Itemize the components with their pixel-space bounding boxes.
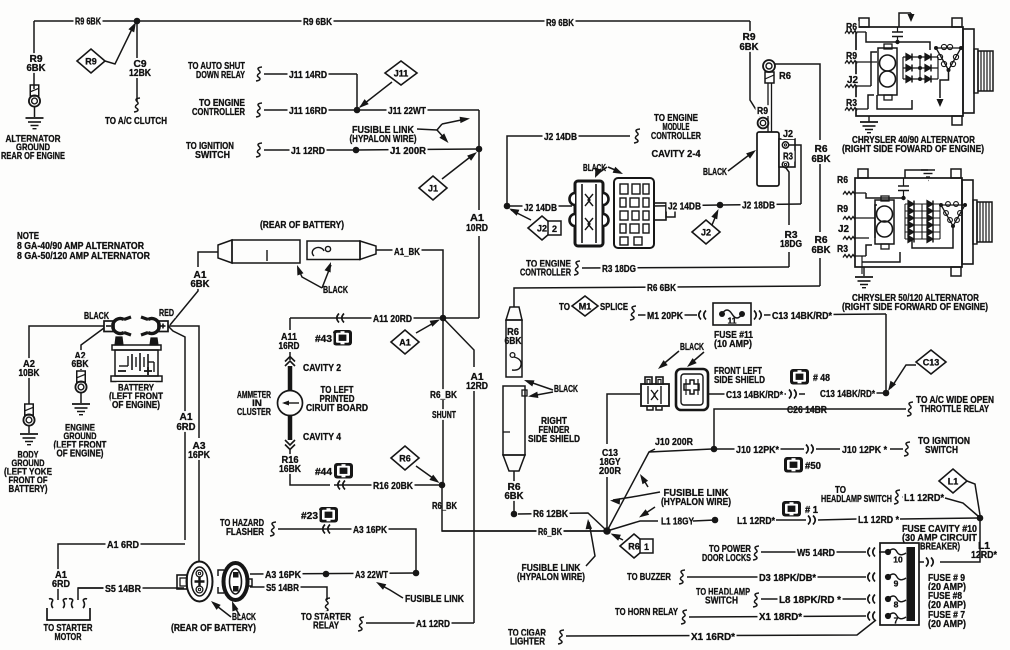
arrowhead at J2 18DB junction bbox=[711, 209, 718, 219]
svg-text:CONTROLLER: CONTROLLER bbox=[520, 268, 571, 279]
wire A1 10RD lower bbox=[478, 236, 480, 318]
leader fusible mid to L1 bbox=[643, 507, 655, 515]
arrowhead fusible link upper bbox=[460, 117, 470, 123]
svg-text:S5 14BR: S5 14BR bbox=[266, 583, 299, 594]
label AMMETER IN CLUSTER bbox=[236, 389, 273, 400]
arrowhead fusible link bottom bbox=[376, 582, 386, 590]
label TO LEFT PRINTED CIRUIT BOARD bbox=[319, 384, 355, 395]
svg-text:J2 14DB: J2 14DB bbox=[524, 203, 557, 214]
label A11 20RD bbox=[372, 313, 414, 324]
label ALTERNATOR GROUND REAR OF ENGINE bbox=[4, 133, 62, 144]
svg-text:CONTROLLER: CONTROLLER bbox=[192, 107, 245, 118]
connector chevrons hazard bbox=[328, 525, 330, 534]
label TO HEADLAMP SWITCH lower bbox=[695, 586, 752, 597]
label TO HEADLAMP SWITCH right bbox=[834, 484, 848, 495]
wire R6 6BK vertical lower bbox=[819, 258, 821, 286]
fusible link capsule right bbox=[307, 241, 360, 260]
alternator 40/90 diode bridge bbox=[903, 56, 938, 58]
label R9 6BK vertical bbox=[28, 53, 44, 64]
icon bulkhead #43 bbox=[333, 330, 352, 346]
wire J11 diamond leader bbox=[360, 82, 392, 107]
label BATTERY (LEFT FRONT OF ENGINE) bbox=[117, 382, 156, 393]
label J11 22WT bbox=[387, 105, 428, 116]
connector A1 diamond bbox=[391, 330, 419, 354]
label J1 200R bbox=[389, 145, 428, 156]
connector R6>1 diamond bbox=[620, 534, 648, 558]
label A3 22WT bbox=[354, 569, 390, 580]
relay terminal J2 bbox=[782, 142, 788, 148]
arrowhead at J2 14DB junction bbox=[509, 209, 519, 216]
wire body ground stem bbox=[28, 426, 30, 433]
node J2 14DB junction bbox=[504, 203, 511, 210]
front shield connector 2 bbox=[676, 369, 708, 410]
wire R6 6BK from eyelet bbox=[775, 64, 820, 140]
ammeter thick lead lower bbox=[288, 416, 293, 440]
label CAVITY 4 bbox=[302, 431, 343, 442]
node J10 junction bbox=[711, 446, 718, 453]
wire C13 14BK/RD bbox=[764, 314, 886, 315]
svg-text:(HYPALON WIRE): (HYPALON WIRE) bbox=[517, 572, 585, 583]
wire A1 10RD upper bbox=[478, 149, 480, 210]
svg-text:X1 18RD*: X1 18RD* bbox=[759, 612, 802, 623]
label J2 18DB bbox=[741, 200, 777, 211]
wire A11 20RD bbox=[290, 317, 443, 319]
wire fender capsule to R6 junction bbox=[513, 471, 515, 511]
leader fusible mid to J10 bbox=[642, 477, 648, 487]
wire ground stem bbox=[34, 107, 36, 117]
wire R6 diamond leader bbox=[416, 466, 437, 481]
svg-text:6BK: 6BK bbox=[505, 491, 524, 502]
svg-text:R6: R6 bbox=[399, 453, 411, 463]
wire C13 diamond leader bbox=[891, 365, 916, 388]
ground alternator bbox=[26, 117, 44, 119]
svg-text:# 1: # 1 bbox=[805, 505, 819, 516]
wire J11 22WT drop bbox=[478, 110, 480, 149]
label #1 bbox=[804, 504, 820, 515]
wire battery negative to engine ground bbox=[81, 328, 104, 370]
connector chevrons D3 bbox=[873, 573, 875, 582]
svg-text:SHUNT: SHUNT bbox=[432, 410, 456, 421]
label A2 6BK bbox=[73, 350, 87, 361]
icon bulkhead #44 bbox=[334, 463, 353, 479]
fuse 10 terminal bbox=[885, 549, 891, 555]
leader black mid connector 1 bbox=[596, 167, 607, 176]
svg-text:#23: #23 bbox=[301, 511, 319, 522]
label R6 6BK vertical upper bbox=[813, 143, 829, 154]
label A2 10BK bbox=[22, 358, 37, 369]
label NOTE block bbox=[16, 230, 41, 241]
wire S5 14BR left bbox=[78, 588, 104, 600]
wire J10 12PK 2 bbox=[816, 448, 840, 450]
label W5 14RD bbox=[796, 547, 837, 558]
svg-text:CONTROLLER: CONTROLLER bbox=[651, 131, 701, 142]
label (REAR OF BATTERY) bottom bbox=[170, 622, 258, 633]
svg-text:TO HORN RELAY: TO HORN RELAY bbox=[615, 607, 678, 618]
alternator 40/90 internal wiring bbox=[866, 32, 898, 42]
connector J2>2 diamond bbox=[528, 216, 556, 240]
label #44 bbox=[314, 466, 334, 477]
svg-text:6BK: 6BK bbox=[505, 336, 522, 347]
label CHRYSLER 50/120 ALTERNATOR bbox=[851, 292, 981, 303]
svg-text:C26 14BR: C26 14BR bbox=[787, 405, 827, 416]
wire R9 6BK drop right bbox=[750, 21, 760, 116]
svg-text:J2: J2 bbox=[783, 129, 793, 140]
label FRONT LEFT SIDE SHIELD bbox=[713, 365, 764, 376]
label #50 bbox=[804, 460, 823, 471]
label L1 12RD 1 bbox=[736, 515, 777, 526]
wire A1 6BK lower bbox=[170, 285, 198, 325]
svg-text:CAVITY 4: CAVITY 4 bbox=[303, 432, 341, 443]
wire C13 row2 mid bbox=[799, 393, 805, 395]
wire L1 12RD 3 bbox=[818, 519, 857, 520]
svg-text:R6_BK: R6_BK bbox=[538, 527, 562, 538]
label M1 20PK bbox=[646, 310, 685, 321]
fuse 7 element bbox=[888, 613, 906, 619]
battery post negative bbox=[115, 337, 123, 345]
svg-text:6BK: 6BK bbox=[191, 279, 210, 290]
connector chevrons L1 cavity bbox=[926, 558, 928, 567]
svg-text:J1 200R: J1 200R bbox=[390, 146, 426, 157]
wire R9 6BK top bus bbox=[34, 20, 750, 22]
svg-text:R6: R6 bbox=[779, 71, 792, 82]
leader fusible link upper bbox=[417, 124, 442, 130]
label BLACK rear connectors bbox=[231, 611, 258, 622]
label BLACK battery clamp bbox=[83, 310, 111, 321]
alternator 50/120 terminal J2 bbox=[837, 223, 851, 234]
ammeter circle bbox=[278, 391, 303, 416]
node A3 22WT end bbox=[413, 570, 420, 577]
alternator 40/90 terminal R6 bbox=[845, 21, 859, 32]
label A11 16RD bbox=[280, 331, 299, 342]
svg-text:BLACK: BLACK bbox=[232, 612, 256, 623]
svg-text:#50: #50 bbox=[805, 461, 822, 472]
svg-text:CAVITY 2: CAVITY 2 bbox=[303, 363, 341, 374]
connector M1 diamond bbox=[572, 296, 598, 316]
label TO A/C WIDE OPEN THROTTLE RELAY bbox=[915, 394, 996, 405]
svg-text:J10 12PK*: J10 12PK* bbox=[736, 445, 779, 456]
label FUSE # 7 (20 AMP) bbox=[927, 609, 967, 620]
svg-text:(HYPALON WIRE): (HYPALON WIRE) bbox=[661, 497, 731, 508]
ring terminal R9 bbox=[758, 118, 769, 129]
wire J1 12RD bbox=[264, 149, 356, 151]
label FUSIBLE LINK (HYPALON WIRE) lower bbox=[520, 562, 582, 573]
leader black fender upper bbox=[527, 381, 553, 390]
wire J10 12PK 3 bbox=[890, 448, 903, 450]
alternator 40/90 terminal R9 bbox=[845, 50, 859, 61]
label TO HORN RELAY bbox=[614, 606, 680, 617]
leader black shield conn1 bbox=[661, 351, 679, 366]
svg-text:18DG: 18DG bbox=[780, 239, 802, 250]
alternator 40/90 case ground bbox=[868, 116, 870, 122]
rear connector B oval bbox=[224, 563, 248, 600]
node L1 junction bbox=[977, 515, 984, 522]
wire L1 label leader bbox=[945, 498, 978, 516]
fusible link capsule left bbox=[218, 240, 232, 263]
svg-text:BLACK: BLACK bbox=[680, 342, 704, 353]
icon bulkhead #48 bbox=[790, 369, 809, 385]
svg-text:THROTTLE RELAY: THROTTLE RELAY bbox=[920, 404, 989, 415]
svg-text:R9 6BK: R9 6BK bbox=[546, 18, 574, 29]
label TO ENGINE MODULE CONTROLLER bbox=[653, 112, 700, 123]
alternator 50/120 brush circles bbox=[877, 206, 893, 222]
wire J2 18DB bbox=[720, 204, 801, 205]
svg-text:C13 14BK/RD*: C13 14BK/RD* bbox=[726, 390, 783, 401]
svg-text:J10 200R: J10 200R bbox=[655, 437, 693, 448]
svg-text:10RD: 10RD bbox=[466, 223, 488, 234]
label R3 18DG vertical bbox=[783, 229, 799, 240]
wire J2 14DB right bbox=[654, 205, 720, 206]
label A1 12RD bottom bbox=[415, 618, 452, 629]
wire J10 200R diagonal bbox=[607, 449, 655, 531]
label TO IGNITION SWITCH right bbox=[917, 435, 972, 446]
sleeve R6 bbox=[765, 72, 774, 83]
wire C9 12BK lower bbox=[136, 77, 138, 101]
wire-end squiggle J10 bbox=[904, 442, 910, 456]
wire A1 12RD diagonal bbox=[443, 318, 474, 367]
svg-text:TO BUZZER: TO BUZZER bbox=[627, 572, 671, 583]
wire C9 12BK upper bbox=[136, 21, 138, 58]
svg-text:7: 7 bbox=[894, 616, 899, 626]
arrowhead fusible lower bbox=[586, 519, 593, 529]
fusible link capsule lower (fender) bbox=[503, 386, 525, 455]
label #23 bbox=[300, 510, 320, 521]
starter bracket bbox=[47, 608, 90, 620]
label R9 6BK right vertical bbox=[741, 31, 757, 42]
wire L1 12RD headlamp bbox=[902, 496, 943, 498]
wire L8 18PK/RD bbox=[761, 598, 866, 600]
wire-end squiggle starter relay S5 bbox=[324, 598, 330, 612]
arrowhead at big junction bbox=[611, 534, 621, 541]
label BLACK rear-of-battery bbox=[322, 284, 350, 295]
label C13 14BK/RD top bbox=[771, 310, 834, 321]
alternator 40/90 terminal J2 bbox=[846, 74, 860, 85]
node J11 junction bbox=[354, 107, 361, 114]
svg-text:SPLICE: SPLICE bbox=[600, 302, 628, 313]
wire S5 14BR right bbox=[250, 587, 327, 600]
svg-text:CIRUIT BOARD: CIRUIT BOARD bbox=[306, 403, 368, 414]
connector chevrons X1 bbox=[873, 612, 875, 621]
label TO M1 SPLICE bbox=[558, 301, 572, 312]
svg-text:(RIGHT SIDE FORWARD OF ENGINE): (RIGHT SIDE FORWARD OF ENGINE) bbox=[842, 302, 988, 313]
wire L1 12RD 2 bbox=[776, 519, 806, 521]
battery body bbox=[112, 345, 161, 350]
wire-end squiggle M1 bbox=[630, 306, 636, 320]
label L1 18GY bbox=[660, 516, 696, 527]
wire C13 row2 from connector bbox=[708, 393, 786, 395]
connector R6 diamond mid bbox=[391, 446, 419, 470]
connector chevrons J10 bbox=[806, 445, 808, 454]
svg-text:RED: RED bbox=[159, 308, 174, 319]
label RIGHT FENDER SIDE SHIELD bbox=[540, 415, 569, 426]
label R6 6BK lower vertical bbox=[506, 481, 522, 492]
wire C26 14BR bbox=[714, 409, 906, 449]
node J2 18DB junction bbox=[717, 202, 724, 209]
connector R9 diamond bbox=[77, 49, 105, 73]
alternator 50/120 case and pulley bbox=[855, 178, 962, 267]
svg-text:12RD*: 12RD* bbox=[971, 550, 997, 561]
svg-text:HEADLAMP SWITCH: HEADLAMP SWITCH bbox=[821, 494, 892, 505]
svg-text:R3: R3 bbox=[846, 98, 857, 109]
svg-text:#43: #43 bbox=[315, 334, 333, 345]
ring terminal R6 bbox=[763, 60, 775, 72]
label A3 16PK hazard bbox=[352, 524, 389, 535]
wire A3 16PK vertical lower bbox=[198, 459, 200, 562]
wire W5 14RD bbox=[761, 551, 866, 553]
label BLACK relay bbox=[702, 166, 729, 177]
label FUSIBLE LINK bottom bbox=[404, 593, 466, 604]
wire R6>1 leader bbox=[613, 535, 623, 540]
svg-text:A1 12RD: A1 12RD bbox=[416, 619, 450, 630]
label FUSE #11 (10 AMP) bbox=[713, 329, 755, 340]
label J11 16RD bbox=[288, 105, 329, 116]
wire R6 6BK horizontal bbox=[514, 286, 820, 307]
label BLACK fender bbox=[553, 383, 580, 394]
label A1 10RD bbox=[469, 212, 486, 223]
alternator 40/90 stator delta bbox=[936, 48, 961, 70]
label TO STARTER MOTOR bbox=[42, 622, 94, 633]
svg-text:J2: J2 bbox=[838, 224, 850, 235]
svg-text:SWITCH: SWITCH bbox=[925, 445, 958, 456]
node J1 junction bbox=[476, 146, 483, 153]
wire-end squiggle J11 14RD bbox=[256, 67, 262, 81]
label C9 12BK bbox=[132, 58, 148, 69]
label (RIGHT SIDE FORWARD OF ENGINE) bbox=[841, 301, 990, 312]
svg-text:BLACK: BLACK bbox=[323, 285, 348, 296]
svg-text:6BK: 6BK bbox=[740, 42, 759, 53]
svg-text:W5 14RD: W5 14RD bbox=[797, 548, 835, 559]
svg-text:J2 18DB: J2 18DB bbox=[742, 201, 775, 212]
label R9 6BK (left) bbox=[74, 16, 103, 27]
battery cells symbol bbox=[119, 365, 128, 367]
ammeter needle bbox=[284, 402, 299, 404]
svg-text:R9: R9 bbox=[85, 56, 97, 66]
wire relay R3 down lower bbox=[788, 252, 790, 267]
label FUSIBLE LINK (HYPALON WIRE) mid bbox=[662, 487, 730, 498]
svg-text:CAVITY 2-4: CAVITY 2-4 bbox=[652, 149, 702, 160]
svg-text:OF ENGINE): OF ENGINE) bbox=[57, 449, 104, 460]
svg-text:10: 10 bbox=[893, 555, 903, 565]
wire J2 14DB to connector bbox=[507, 205, 572, 207]
battery clamp negative bbox=[113, 318, 124, 333]
rear connector A oval bbox=[187, 562, 213, 602]
connector C13 diamond bbox=[916, 350, 946, 374]
svg-text:R6: R6 bbox=[628, 541, 640, 551]
label R9 eyelet bbox=[756, 105, 770, 116]
cavity chevron 4 bbox=[285, 440, 295, 450]
wire shunt R6_BK bbox=[442, 318, 444, 485]
svg-text:FUSIBLE LINK: FUSIBLE LINK bbox=[405, 594, 464, 605]
svg-text:LIGHTER: LIGHTER bbox=[510, 637, 545, 648]
wire red terminal to A3 16PK bbox=[168, 326, 199, 438]
svg-text:J2: J2 bbox=[701, 227, 711, 237]
label J2 14DB mid bbox=[523, 202, 559, 213]
label CHRYSLER 40/90 ALTERNATOR bbox=[851, 134, 977, 145]
svg-text:REAR OF ENGINE: REAR OF ENGINE bbox=[1, 151, 65, 162]
alternator 50/120 terminal R9 bbox=[836, 203, 850, 214]
label FUSIBLE LINK (HYPALON WIRE) top bbox=[351, 124, 416, 135]
label R6 eyelet bbox=[778, 70, 793, 81]
label FUSE #8 (20 AMP) bbox=[927, 590, 964, 601]
svg-text:R9: R9 bbox=[757, 106, 768, 117]
label C13 18GY 200R bbox=[601, 447, 620, 458]
alternator 40/90 terminal R3 bbox=[845, 97, 859, 108]
label TO BUZZER bbox=[626, 571, 673, 582]
svg-text:1: 1 bbox=[644, 542, 649, 552]
wire A1 12RD vertical bbox=[473, 391, 475, 623]
svg-text:#44: #44 bbox=[315, 467, 333, 478]
svg-text:A3 16PK: A3 16PK bbox=[353, 525, 387, 536]
svg-text:R16 20BK: R16 20BK bbox=[373, 481, 413, 492]
svg-text:L1: L1 bbox=[948, 476, 959, 486]
svg-text:L1 12RD*: L1 12RD* bbox=[737, 516, 775, 527]
label TO A/C CLUTCH bbox=[104, 115, 169, 126]
svg-text:9: 9 bbox=[894, 579, 899, 589]
label #48 bbox=[812, 372, 832, 383]
node A3 splice bbox=[323, 571, 330, 578]
svg-text:# 48: # 48 bbox=[813, 373, 830, 384]
label TO STARTER RELAY bbox=[300, 611, 353, 622]
label C13 14BK/RD row2 right bbox=[819, 388, 877, 399]
wire L1 12RD 1 bbox=[693, 520, 715, 521]
connector chevrons A11 20RD bbox=[342, 314, 344, 323]
wire R6 12BK bbox=[518, 513, 605, 529]
svg-text:(10 AMP): (10 AMP) bbox=[714, 339, 752, 350]
wire J11 14RD drop bbox=[356, 74, 358, 110]
node L1 splice bbox=[712, 517, 719, 524]
svg-text:C13 14BK/RD*: C13 14BK/RD* bbox=[772, 311, 832, 322]
svg-text:R9: R9 bbox=[837, 204, 848, 215]
label R6_BK upper bbox=[429, 389, 459, 400]
svg-text:R9: R9 bbox=[846, 51, 857, 62]
alternator 50/120 diode grid bbox=[905, 203, 940, 205]
svg-text:BLACK: BLACK bbox=[703, 167, 727, 178]
svg-text:R6: R6 bbox=[837, 175, 848, 186]
svg-text:R3: R3 bbox=[783, 152, 793, 163]
label R16 16BK bbox=[280, 454, 300, 465]
svg-text:6BK: 6BK bbox=[812, 154, 831, 165]
wire engine ground stem bbox=[80, 393, 82, 403]
battery clamp positive bbox=[148, 318, 159, 333]
label J2 14DB right bbox=[667, 201, 703, 212]
wire L1 diamond leader bbox=[967, 481, 980, 515]
svg-text:D3 18PK/DB*: D3 18PK/DB* bbox=[759, 573, 816, 584]
wire R9 diamond leader bbox=[105, 25, 134, 64]
wire X1 16RD bbox=[566, 620, 876, 636]
arrowhead at R16 junction bbox=[429, 475, 439, 483]
label ENGINE GROUND (LEFT FRONT OF ENGINE) bbox=[64, 422, 97, 433]
svg-text:C13: C13 bbox=[923, 357, 940, 367]
alternator 40/90 brush circles bbox=[880, 55, 896, 71]
wire A1 12RD bottom bbox=[366, 622, 474, 624]
wire C13 drop bbox=[885, 314, 887, 390]
wire J1 diamond leader bbox=[442, 154, 474, 179]
svg-text:BLACK: BLACK bbox=[554, 384, 578, 395]
wire-end squiggle headlamp lower bbox=[753, 593, 759, 607]
alternator 40/90 rotor frame bbox=[878, 48, 897, 95]
alternator 50/120 capacitor bbox=[898, 185, 909, 187]
label BLACK front shield bbox=[679, 341, 706, 352]
wire battery negative to body ground bbox=[29, 326, 104, 404]
connector chevrons M1 bbox=[704, 311, 706, 320]
svg-text:DOWN RELAY: DOWN RELAY bbox=[196, 70, 245, 81]
svg-text:6BK: 6BK bbox=[27, 63, 46, 74]
connector chevrons L8 bbox=[873, 595, 875, 604]
label X1 16RD bbox=[690, 631, 737, 642]
wire A1 diamond leader bbox=[416, 321, 437, 333]
label J1 12RD bbox=[290, 145, 327, 156]
svg-text:M1: M1 bbox=[579, 301, 592, 311]
rear connector B tab bbox=[247, 579, 253, 586]
